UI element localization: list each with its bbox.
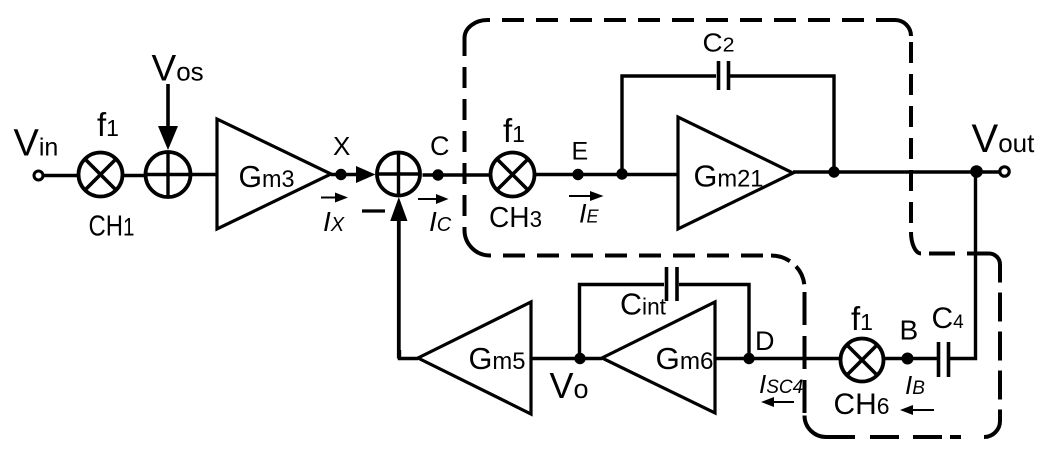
dashed box upper: top-right corner [895, 20, 911, 36]
svg-text:C: C [430, 131, 450, 161]
op-amp Gm6 (points left) [602, 302, 715, 413]
svg-text:CH3: CH3 [489, 202, 542, 234]
summer S1 [146, 152, 191, 197]
summer S2 [377, 153, 420, 196]
dashed box upper: top-left corner [465, 20, 488, 38]
dashed box upper: top edge [487, 18, 895, 22]
op-amp Gm21 [678, 117, 793, 229]
wire Vin to CH1 [43, 174, 79, 177]
terminal Vin [34, 171, 43, 180]
dash-dot box lower: bottom-right corner [984, 421, 1000, 437]
node D [743, 353, 754, 364]
dashed box upper: bottom edge [490, 254, 771, 258]
wire Gm21 to Vout [793, 170, 1000, 173]
wire CH3 to Gm21 [535, 173, 679, 176]
wire S1 to Gm3 [191, 173, 219, 176]
current arrow Ic [418, 194, 449, 204]
svg-text:B: B [900, 315, 919, 346]
wire Gm3 to summer S2 [331, 173, 370, 176]
capacitor Cint [667, 267, 678, 301]
node E [572, 169, 583, 180]
node C2 tap junction [616, 168, 627, 179]
dash-dot box lower: bottom edge [826, 435, 984, 439]
current arrow IB (left) [900, 405, 934, 415]
dash-dot box lower: top edge [921, 252, 989, 256]
wire Vout down to C4 [950, 172, 976, 359]
dashed box upper: left edge [463, 38, 467, 230]
node X [335, 169, 346, 180]
capacitor C2 [719, 61, 729, 90]
wire C2 feedback right leg [730, 76, 834, 172]
wire CH6 to node D [749, 357, 841, 360]
dashed box upper: inner corner to lower box left edge [771, 256, 805, 289]
chopper CH6 [841, 339, 884, 382]
Vos input arrow [158, 84, 178, 150]
current arrow IE [569, 191, 604, 201]
dashed box upper: bottom-left corner [465, 230, 491, 256]
wire D to Gm6 [715, 357, 749, 360]
arrowhead into S2 [356, 166, 376, 183]
wire Cint feedback left leg [580, 285, 665, 359]
dashed box upper: right edge [909, 36, 913, 232]
capacitor C4 [939, 342, 949, 377]
svg-text:CH6: CH6 [834, 388, 890, 421]
current arrow Isc4 (left) [761, 397, 794, 407]
current arrow Ix [321, 193, 348, 203]
dash-dot box lower: bottom-left corner [805, 416, 827, 438]
dashed box upper: inner corner to lower box top [911, 232, 921, 254]
node Vo [574, 353, 585, 364]
svg-text:E: E [572, 138, 589, 166]
wire C4 to node B [884, 357, 937, 360]
chopper CH3 [491, 153, 535, 197]
dash-dot box lower: top-right corner [989, 254, 1000, 265]
wire CH1 to summer S1 [123, 174, 147, 177]
op-amp Gm5 (points left) [418, 302, 531, 414]
wire Cint feedback right leg [679, 285, 749, 359]
wire Gm5 to feedback riser [400, 350, 419, 359]
feedback arrow into S2 (from Gm5) [390, 197, 407, 359]
wire Gm6 to Vo [580, 357, 602, 360]
terminal Vout [1000, 167, 1009, 176]
node B [902, 353, 914, 365]
chopper CH1 [79, 153, 123, 197]
svg-text:CH1: CH1 [89, 211, 135, 243]
node C [432, 169, 443, 180]
dash-dot box lower: left edge [803, 288, 807, 416]
minus sign at S2 [362, 209, 385, 212]
svg-text:D: D [755, 326, 775, 356]
node Vout [970, 165, 983, 178]
svg-text:X: X [333, 131, 350, 161]
dash-dot box lower: right edge [998, 265, 1002, 422]
wire Vo to Gm5 [531, 357, 580, 360]
node Gm21 output / C2 [828, 166, 839, 177]
op-amp Gm3 [217, 119, 331, 229]
wire S2 to CH3 [423, 173, 492, 176]
wire C2 feedback left leg [622, 76, 716, 174]
